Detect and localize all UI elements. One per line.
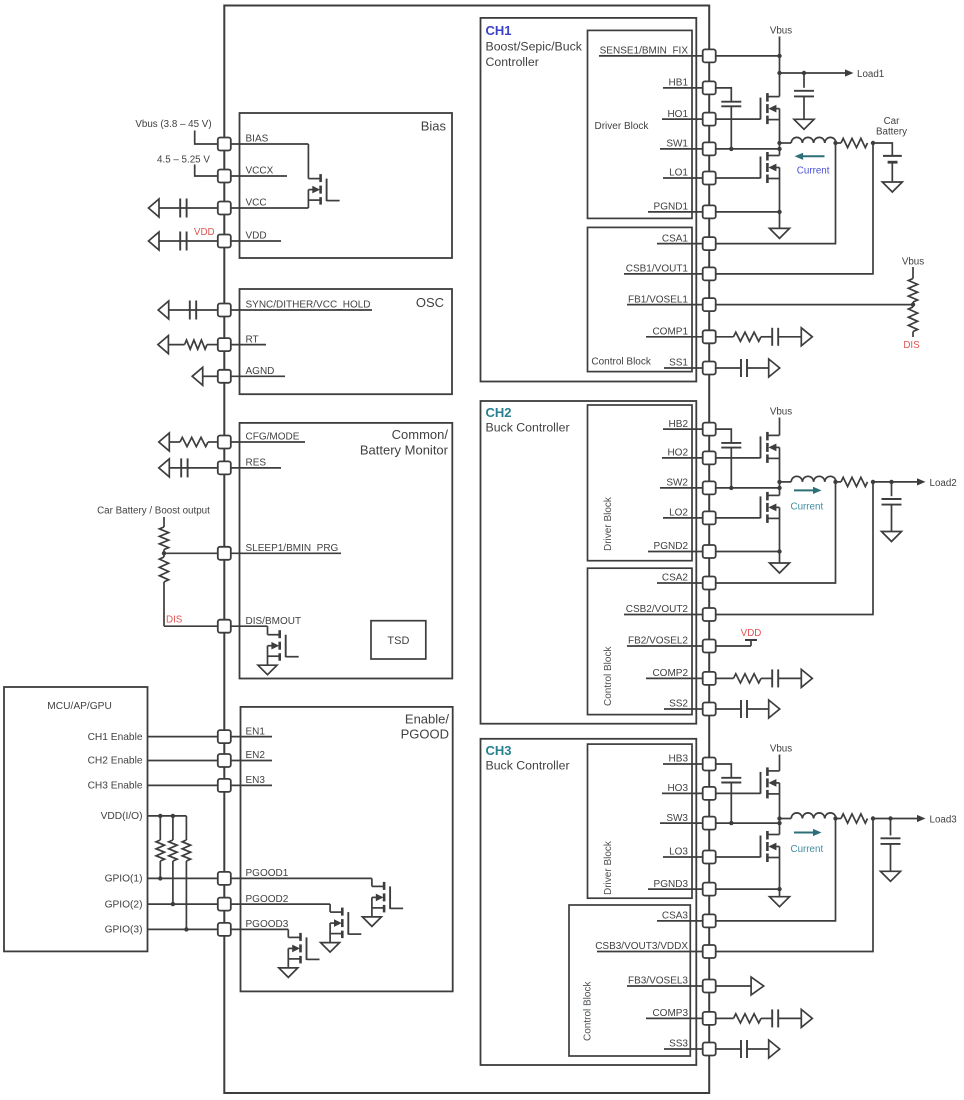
- pin CFG/MODE: [218, 436, 231, 449]
- svg-text:Vbus: Vbus: [770, 744, 792, 755]
- pin HB3: [703, 758, 716, 771]
- wire VDD(I/O) rail: [148, 815, 187, 817]
- wire SS2 gnd: [747, 708, 769, 710]
- block Bias: [240, 113, 453, 258]
- wire CSB2/VOUT2 stub: [624, 614, 709, 616]
- wire SENSE1/BMIN_FIX stub: [599, 55, 709, 57]
- label CSB3/VOUT3/VDDX: [595, 941, 688, 952]
- wire HO2 stub: [662, 457, 709, 459]
- svg-text:SS1: SS1: [669, 358, 688, 369]
- pin COMP2: [703, 672, 716, 685]
- label PGOOD2: [246, 894, 289, 905]
- resistor CFG: [180, 437, 208, 446]
- label MCU GPIO(2): [105, 899, 143, 910]
- ground AGND: [192, 367, 203, 385]
- svg-text:VDD: VDD: [194, 227, 215, 238]
- wire BIAS elbow: [307, 144, 309, 179]
- label Current CH3: [791, 844, 824, 855]
- wire SW1 ext: [716, 148, 780, 150]
- label HB3: [669, 754, 689, 765]
- node CSB2 tap: [871, 480, 875, 484]
- pin CSB1/VOUT1: [703, 267, 716, 280]
- wire Vbus input: [195, 131, 218, 145]
- resistor sense R1: [841, 138, 868, 147]
- label CSA2: [662, 573, 689, 584]
- svg-text:Battery: Battery: [876, 127, 907, 138]
- wire CSA3 stub: [657, 920, 709, 922]
- svg-text:FB2/VOSEL2: FB2/VOSEL2: [628, 636, 688, 647]
- svg-text:Vbus: Vbus: [902, 257, 924, 268]
- node FB1 divider: [911, 302, 915, 306]
- wire PGND1 ext: [716, 211, 780, 213]
- block CH1: [481, 18, 697, 382]
- wire SW2 to LS drain: [779, 482, 781, 496]
- wire GPIO1 to MCU: [148, 877, 218, 879]
- svg-text:VCC: VCC: [246, 198, 267, 209]
- pin CSA2: [703, 577, 716, 590]
- wire SS2 ext: [716, 708, 741, 710]
- label Bias: [421, 119, 447, 134]
- wire CSA1 stub: [657, 243, 709, 245]
- svg-text:VDD: VDD: [246, 231, 267, 242]
- label CH2 subtitle: [486, 421, 570, 435]
- capacitor SS1: [741, 359, 747, 377]
- wire PGND2 stub: [648, 551, 709, 553]
- label MCU CH3 Enable: [88, 781, 143, 792]
- block OSC: [240, 289, 453, 394]
- wire SS3 gnd: [747, 1048, 769, 1050]
- capacitor COMP2: [772, 669, 778, 687]
- ground COMP1: [801, 328, 812, 346]
- label CSA1: [662, 233, 689, 244]
- wire FB1 divider top: [912, 267, 914, 279]
- svg-text:PGOOD1: PGOOD1: [246, 868, 289, 879]
- svg-text:Current: Current: [791, 844, 824, 855]
- label CH3 Control Block: [583, 981, 594, 1041]
- pin CSB2/VOUT2: [703, 608, 716, 621]
- wire GPIO3 to MCU: [148, 928, 218, 930]
- node VDDIO R1: [158, 814, 162, 818]
- label FB2/VOSEL2: [628, 636, 688, 647]
- wire Load3: [873, 818, 918, 820]
- pin COMP1: [703, 330, 716, 343]
- label COMP2: [652, 668, 688, 679]
- wire HO1 gate: [716, 118, 761, 120]
- wire VDD ext: [159, 240, 218, 242]
- block CH1 control: [588, 227, 693, 371]
- label CH1: [486, 23, 512, 38]
- wire Load1 cap: [803, 73, 805, 88]
- ground VCC: [149, 199, 160, 217]
- label Vbus CH2: [770, 407, 792, 418]
- wire HB3 stub: [663, 763, 709, 765]
- svg-text:Bias: Bias: [421, 119, 447, 134]
- wire battery gnd: [891, 162, 893, 182]
- svg-text:COMP1: COMP1: [652, 327, 688, 338]
- wire sleep junction: [164, 550, 218, 558]
- capacitor bootstrap CH3: [721, 778, 741, 783]
- arrow Current CH2: [794, 487, 822, 494]
- label VDD red: [194, 227, 215, 238]
- wire CSB1/VOUT1 stub: [624, 273, 709, 275]
- wire RES ext: [169, 467, 218, 469]
- pin PGOOD1: [218, 872, 231, 885]
- label SS1: [669, 358, 688, 369]
- pin HO3: [703, 787, 716, 800]
- svg-text:LO2: LO2: [669, 508, 688, 519]
- node PGND1: [777, 210, 781, 214]
- pin BIAS: [218, 138, 231, 151]
- label SW2: [666, 478, 688, 489]
- svg-text:Buck Controller: Buck Controller: [486, 759, 570, 773]
- wire HO1 stub: [662, 118, 709, 120]
- svg-text:DIS: DIS: [166, 615, 183, 626]
- wire COMP3 ext: [716, 1017, 734, 1019]
- capacitor SS3: [741, 1040, 747, 1058]
- label Current CH1: [797, 166, 830, 177]
- node SW3 inductor: [777, 816, 781, 820]
- wire SW2 ext: [716, 487, 780, 489]
- pin VDD: [218, 235, 231, 248]
- transistor Bias NMOS: [308, 174, 339, 205]
- svg-text:SS2: SS2: [669, 699, 688, 710]
- svg-text:EN1: EN1: [246, 726, 266, 737]
- wire COMP2 mid: [761, 677, 772, 679]
- svg-text:TSD: TSD: [387, 635, 409, 647]
- svg-text:Vbus (3.8 – 45 V): Vbus (3.8 – 45 V): [135, 119, 211, 130]
- wire pullup2 bottom: [172, 861, 174, 904]
- svg-text:HB3: HB3: [669, 754, 689, 765]
- svg-text:Vbus: Vbus: [770, 26, 792, 37]
- pin HB1: [703, 81, 716, 94]
- resistor sleep upper: [159, 527, 168, 550]
- svg-text:CSB3/VOUT3/VDDX: CSB3/VOUT3/VDDX: [595, 941, 688, 952]
- svg-text:Boost/Sepic/Buck: Boost/Sepic/Buck: [486, 40, 583, 54]
- wire EN1 to MCU: [148, 736, 218, 738]
- label RES: [246, 458, 267, 469]
- node pullup2 GPIO2: [171, 902, 175, 906]
- wire EN3 stub: [224, 784, 272, 786]
- label OSC: [416, 295, 444, 310]
- label Car Battery: [876, 116, 907, 138]
- label MCU VDD(I/O): [101, 811, 143, 822]
- svg-text:SENSE1/BMIN_FIX: SENSE1/BMIN_FIX: [600, 46, 689, 57]
- svg-text:MCU/AP/GPU: MCU/AP/GPU: [47, 701, 112, 712]
- transistor PGOOD1 NMOS: [362, 882, 403, 927]
- label PGND2: [654, 541, 689, 552]
- wire HB3 ext: [716, 764, 732, 777]
- label Load2: [930, 478, 957, 489]
- pin HO1: [703, 113, 716, 126]
- pin HB2: [703, 423, 716, 436]
- wire inductor lead 1: [780, 142, 792, 144]
- svg-text:CH1: CH1: [486, 23, 512, 38]
- capacitor COMP1: [772, 328, 778, 346]
- wire VDD stub: [224, 240, 281, 242]
- label Vbus CH3: [770, 744, 792, 755]
- svg-text:FB3/VOSEL3: FB3/VOSEL3: [628, 976, 688, 987]
- wire LO1 gate: [716, 177, 761, 179]
- wire Load2: [873, 481, 918, 483]
- resistor sense R2: [841, 477, 868, 486]
- block TSD: [371, 621, 426, 659]
- wire PGOOD2 stub: [224, 903, 330, 905]
- svg-text:Load2: Load2: [930, 478, 957, 489]
- svg-text:CH1 Enable: CH1 Enable: [88, 732, 143, 743]
- svg-text:CSB1/VOUT1: CSB1/VOUT1: [626, 264, 689, 275]
- wire 4.5-5.25V: [195, 165, 218, 177]
- svg-text:FB1/VOSEL1: FB1/VOSEL1: [628, 294, 688, 305]
- node CSA1 tap: [833, 141, 837, 145]
- resistor COMP3: [734, 1014, 762, 1023]
- svg-text:PGND3: PGND3: [654, 879, 689, 890]
- pin SENSE1/BMIN_FIX: [703, 49, 716, 62]
- node SW2: [777, 486, 781, 490]
- node Load2 cap tap: [889, 480, 893, 484]
- node pullup1 GPIO1: [158, 876, 162, 880]
- wire VCC stub: [224, 207, 308, 209]
- pin EN2: [218, 754, 231, 767]
- wire Bias source to VCC: [307, 190, 309, 208]
- svg-text:OSC: OSC: [416, 295, 444, 310]
- wire HO2 gate: [716, 457, 761, 459]
- svg-text:CH2: CH2: [486, 405, 512, 420]
- node SENSE1 Vbus: [777, 54, 781, 58]
- transistor CH3 low-side NMOS: [761, 831, 780, 862]
- label COMP3: [652, 1008, 688, 1019]
- node CSB1 tap: [871, 141, 875, 145]
- wire CFG/MODE stub: [224, 441, 305, 443]
- wire Load1: [780, 72, 846, 74]
- svg-text:EN3: EN3: [246, 775, 266, 786]
- pin LO3: [703, 851, 716, 864]
- label Common/Battery Monitor: [360, 427, 449, 458]
- label LO2: [669, 508, 688, 519]
- label 4.5-5.25V: [157, 155, 210, 166]
- label DIS red right: [903, 340, 920, 351]
- label HB1: [669, 78, 689, 89]
- node CSA3 tap: [833, 816, 837, 820]
- node CSB3 tap: [871, 816, 875, 820]
- ground SS3: [769, 1040, 780, 1058]
- transistor CH1 low-side NMOS: [761, 152, 780, 183]
- resistor sleep lower: [159, 557, 168, 582]
- svg-text:GPIO(2): GPIO(2): [105, 899, 143, 910]
- wire FB1/VOSEL1 stub: [627, 304, 709, 306]
- svg-text:GPIO(3): GPIO(3): [105, 925, 143, 936]
- wire GPIO2 to MCU: [148, 903, 218, 905]
- wire FB3 ext: [716, 985, 751, 987]
- wire COMP2 gnd: [778, 677, 801, 679]
- label CSB1/VOUT1: [626, 264, 689, 275]
- svg-text:HO1: HO1: [667, 109, 688, 120]
- label CFG/MODE: [246, 432, 300, 443]
- block CH3 control: [569, 905, 690, 1056]
- svg-text:Enable/: Enable/: [405, 711, 449, 726]
- pin SYNC/DITHER/VCC_HOLD: [218, 304, 231, 317]
- wire SW3 ext: [716, 822, 780, 824]
- block CH2 driver: [588, 405, 693, 561]
- wire DIS elbow: [267, 626, 269, 635]
- svg-text:LO3: LO3: [669, 847, 688, 858]
- node bootstrap SW1: [729, 147, 733, 151]
- label CSA3: [662, 911, 689, 922]
- wire CH1 LS source: [779, 179, 781, 229]
- transistor PGOOD3 NMOS: [279, 933, 320, 978]
- wire HB2 stub: [663, 428, 709, 430]
- wire SW3 to LS drain: [779, 819, 781, 835]
- wire Vbus CH1: [779, 37, 781, 97]
- svg-text:CH2 Enable: CH2 Enable: [88, 756, 143, 767]
- wire pullup3 bottom: [185, 861, 187, 929]
- arrow Load1: [845, 69, 854, 76]
- pin CSA3: [703, 914, 716, 927]
- svg-text:CH3 Enable: CH3 Enable: [88, 781, 143, 792]
- wire RT ext: [168, 344, 218, 346]
- svg-text:COMP3: COMP3: [652, 1008, 688, 1019]
- label COMP1: [652, 327, 688, 338]
- label FB1/VOSEL1: [628, 294, 688, 305]
- svg-text:SS3: SS3: [669, 1039, 688, 1050]
- svg-text:DIS: DIS: [903, 340, 920, 351]
- capacitor VDD: [180, 232, 186, 251]
- wire LO2 stub: [663, 517, 709, 519]
- svg-text:4.5 – 5.25 V: 4.5 – 5.25 V: [157, 155, 210, 166]
- transistor CH3 high-side NMOS: [761, 767, 780, 798]
- ground RES: [159, 459, 170, 477]
- svg-text:Driver Block: Driver Block: [603, 840, 614, 895]
- transistor CH2 low-side NMOS: [761, 492, 780, 523]
- capacitor COMP3: [772, 1009, 778, 1027]
- svg-text:COMP2: COMP2: [652, 668, 688, 679]
- label BIAS: [246, 134, 269, 145]
- label Vbus CH1: [770, 26, 792, 37]
- label CH1 Driver Block: [595, 121, 650, 132]
- label MCU GPIO(1): [105, 874, 143, 885]
- wire SW1 to LS drain: [779, 143, 781, 156]
- label HB2: [669, 419, 689, 430]
- wire PGND3 stub: [648, 888, 709, 890]
- wire HB2 ext: [716, 429, 732, 442]
- capacitor VCC: [180, 199, 186, 218]
- svg-text:CSB2/VOUT2: CSB2/VOUT2: [626, 604, 689, 615]
- pin AGND: [218, 370, 231, 383]
- svg-text:Control Block: Control Block: [583, 981, 594, 1041]
- wire COMP3 gnd: [778, 1017, 801, 1019]
- pin HO2: [703, 451, 716, 464]
- svg-text:Car Battery / Boost output: Car Battery / Boost output: [97, 506, 210, 517]
- svg-text:Driver Block: Driver Block: [603, 496, 614, 551]
- IC boundary: [224, 6, 709, 1094]
- wire LO3 gate: [716, 856, 761, 858]
- pin EN1: [218, 730, 231, 743]
- pin PGND1: [703, 205, 716, 218]
- node CSA2 tap: [833, 480, 837, 484]
- label Car Battery / Boost output: [97, 506, 210, 517]
- wire Load2 cap gnd: [891, 505, 893, 532]
- svg-text:CSA2: CSA2: [662, 573, 689, 584]
- label HO3: [667, 783, 688, 794]
- wire HO3 stub: [662, 792, 709, 794]
- label CH2 Control Block: [603, 646, 614, 706]
- pin SW1: [703, 142, 716, 155]
- wire CSB1 ext: [716, 143, 873, 274]
- wire LO2 gate: [716, 517, 761, 519]
- ground PGND2: [770, 563, 790, 573]
- resistor FB1 upper: [908, 279, 917, 303]
- pin CSA1: [703, 237, 716, 250]
- svg-text:PGOOD2: PGOOD2: [246, 894, 289, 905]
- pin RT: [218, 338, 231, 351]
- transistor CH1 high-side NMOS: [761, 93, 780, 124]
- wire battery feed: [873, 143, 892, 156]
- wire inductor lead 2: [780, 481, 792, 483]
- wire SW2 stub: [660, 487, 709, 489]
- svg-text:EN2: EN2: [246, 750, 266, 761]
- label MCU CH2 Enable: [88, 756, 143, 767]
- label CH3 Driver Block: [603, 840, 614, 895]
- node SW1 inductor: [777, 141, 781, 145]
- resistor sense R3: [841, 814, 868, 823]
- node SW1: [777, 147, 781, 151]
- node SW3: [777, 821, 781, 825]
- wire Vbus CH2: [779, 418, 781, 436]
- ground PGND3: [770, 897, 790, 907]
- label CH3: [486, 743, 512, 758]
- pin PGND3: [703, 883, 716, 896]
- wire FB1 divider bottom: [912, 332, 914, 338]
- pin SLEEP1/BMIN_PRG: [218, 547, 231, 560]
- label DIS/BMOUT: [246, 616, 302, 627]
- wire LO1 stub: [663, 177, 709, 179]
- wire pullup2 top: [172, 816, 174, 840]
- svg-text:AGND: AGND: [246, 366, 275, 377]
- svg-text:SYNC/DITHER/VCC_HOLD: SYNC/DITHER/VCC_HOLD: [246, 300, 371, 311]
- wire DIS/BMOUT stub: [224, 625, 267, 627]
- wire RT stub: [224, 344, 266, 346]
- svg-text:HO2: HO2: [667, 448, 688, 459]
- capacitor SYNC: [190, 301, 196, 320]
- label PGOOD1: [246, 868, 289, 879]
- node sleep junction: [162, 551, 166, 555]
- svg-text:PGND1: PGND1: [654, 202, 689, 213]
- pin LO2: [703, 511, 716, 524]
- svg-text:PGOOD3: PGOOD3: [246, 919, 289, 930]
- svg-text:VDD(I/O): VDD(I/O): [101, 811, 143, 822]
- pin SS1: [703, 362, 716, 375]
- wire CSB2 ext: [716, 482, 873, 615]
- label SYNC/DITHER/VCC_HOLD: [246, 300, 371, 311]
- label CSB2/VOUT2: [626, 604, 689, 615]
- svg-text:VCCX: VCCX: [246, 166, 274, 177]
- pin PGND2: [703, 545, 716, 558]
- block Enable/PGOOD: [241, 707, 453, 992]
- label Load3: [930, 815, 958, 826]
- pin RES: [218, 461, 231, 474]
- resistor COMP1: [734, 332, 762, 341]
- wire COMP3 stub: [646, 1017, 709, 1019]
- capacitor bootstrap CH2: [721, 443, 741, 448]
- wire sense 2: [836, 481, 842, 483]
- node SW2 inductor: [777, 480, 781, 484]
- wire inductor lead 3: [780, 818, 792, 820]
- node bootstrap SW2: [729, 486, 733, 490]
- label Vbus input: [135, 119, 211, 130]
- label Load1: [857, 69, 884, 80]
- wire HB1 ext: [716, 88, 732, 101]
- wire CFG ext: [169, 441, 218, 443]
- pin FB1/VOSEL1: [703, 298, 716, 311]
